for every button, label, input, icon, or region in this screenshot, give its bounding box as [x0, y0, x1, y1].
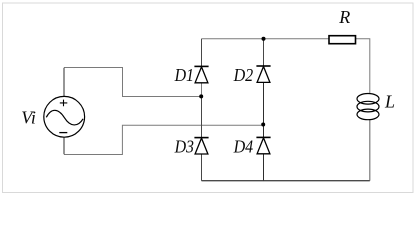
svg-text:D1: D1	[174, 65, 194, 85]
svg-text:D2: D2	[233, 65, 253, 85]
svg-text:D4: D4	[233, 136, 253, 156]
svg-text:Vi: Vi	[21, 107, 36, 127]
svg-text:L: L	[384, 92, 395, 112]
svg-text:D3: D3	[174, 136, 194, 156]
svg-text:R: R	[338, 7, 350, 27]
